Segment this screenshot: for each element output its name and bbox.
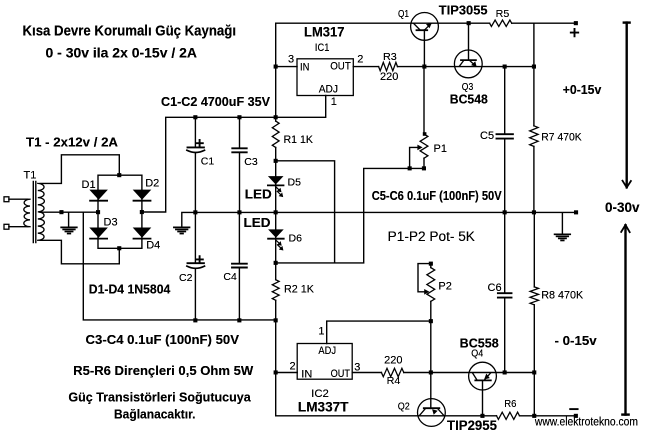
svg-text:R1 1K: R1 1K <box>284 134 314 146</box>
svg-text:D1: D1 <box>82 179 96 191</box>
svg-text:R5: R5 <box>496 8 510 20</box>
svg-text:Kısa Devre Korumalı Güç Kaynağ: Kısa Devre Korumalı Güç Kaynağı <box>23 23 237 39</box>
svg-text:3: 3 <box>354 362 360 374</box>
svg-text:D2: D2 <box>145 177 159 189</box>
svg-text:www.elektrotekno.com: www.elektrotekno.com <box>534 416 638 428</box>
svg-text:R4: R4 <box>387 375 401 387</box>
svg-text:R6: R6 <box>504 398 516 410</box>
svg-text:+0-15v: +0-15v <box>563 82 602 97</box>
svg-text:D1-D4 1N5804: D1-D4 1N5804 <box>89 282 171 297</box>
svg-text:IC1: IC1 <box>315 42 330 54</box>
svg-text:Q3: Q3 <box>462 81 474 93</box>
svg-text:1: 1 <box>331 96 337 108</box>
svg-text:D6: D6 <box>289 233 303 245</box>
svg-text:D3: D3 <box>104 217 118 229</box>
svg-text:IN: IN <box>301 368 312 380</box>
svg-text:Q4: Q4 <box>471 347 483 359</box>
svg-text:LED: LED <box>245 187 272 202</box>
svg-text:Güç Transistörleri Soğutucuya: Güç Transistörleri Soğutucuya <box>68 389 251 404</box>
svg-text:P1-P2 Pot- 5K: P1-P2 Pot- 5K <box>388 229 475 244</box>
svg-text:C6: C6 <box>488 282 502 294</box>
svg-text:0 - 30v ila 2x 0-15v / 2A: 0 - 30v ila 2x 0-15v / 2A <box>46 45 198 60</box>
svg-text:2: 2 <box>357 53 363 65</box>
svg-text:C2: C2 <box>179 272 193 284</box>
svg-text:T1 - 2x12v / 2A: T1 - 2x12v / 2A <box>26 134 118 149</box>
svg-text:IN: IN <box>300 62 309 74</box>
svg-text:- 0-15v: - 0-15v <box>555 333 598 348</box>
svg-text:R7 470K: R7 470K <box>541 132 582 144</box>
svg-text:Q2: Q2 <box>398 401 410 413</box>
svg-text:C5: C5 <box>480 130 494 142</box>
svg-text:Q1: Q1 <box>398 8 409 20</box>
svg-text:P2: P2 <box>438 281 451 293</box>
svg-text:LED: LED <box>244 215 271 230</box>
svg-text:C4: C4 <box>223 271 237 283</box>
svg-text:D4: D4 <box>146 240 160 252</box>
svg-text:OUT: OUT <box>331 368 351 380</box>
svg-text:0-30v: 0-30v <box>605 200 640 215</box>
svg-text:LM337T: LM337T <box>298 400 349 415</box>
svg-text:C3: C3 <box>244 156 258 168</box>
svg-text:R2 1K: R2 1K <box>284 284 315 296</box>
svg-text:TIP3055: TIP3055 <box>439 2 488 17</box>
svg-text:R5-R6 Dirençleri 0,5 Ohm 5W: R5-R6 Dirençleri 0,5 Ohm 5W <box>73 363 254 378</box>
svg-text:Bağlanacaktır.: Bağlanacaktır. <box>114 406 196 421</box>
svg-text:BC548: BC548 <box>450 92 488 106</box>
svg-text:C5-C6 0.1uF (100nF) 50V: C5-C6 0.1uF (100nF) 50V <box>372 189 503 203</box>
svg-text:R3: R3 <box>383 51 397 63</box>
svg-text:ADJ: ADJ <box>319 84 338 96</box>
svg-text:LM317: LM317 <box>304 24 345 39</box>
svg-text:C3-C4 0.1uF (100nF) 50V: C3-C4 0.1uF (100nF) 50V <box>86 332 240 347</box>
svg-text:C1-C2 4700uF 35V: C1-C2 4700uF 35V <box>161 94 270 109</box>
svg-text:IC2: IC2 <box>311 388 329 400</box>
svg-text:220: 220 <box>384 355 402 367</box>
svg-text:2: 2 <box>290 361 296 373</box>
svg-text:3: 3 <box>288 54 294 66</box>
svg-text:TIP2955: TIP2955 <box>447 418 497 433</box>
svg-text:ADJ: ADJ <box>318 345 336 357</box>
svg-text:1: 1 <box>318 326 324 338</box>
svg-text:OUT: OUT <box>330 61 351 73</box>
svg-text:220: 220 <box>380 71 398 83</box>
svg-text:D5: D5 <box>288 177 302 189</box>
svg-text:C1: C1 <box>201 156 215 168</box>
svg-text:R8 470K: R8 470K <box>541 290 584 302</box>
svg-text:P1: P1 <box>434 143 447 155</box>
svg-text:T1: T1 <box>24 170 37 182</box>
